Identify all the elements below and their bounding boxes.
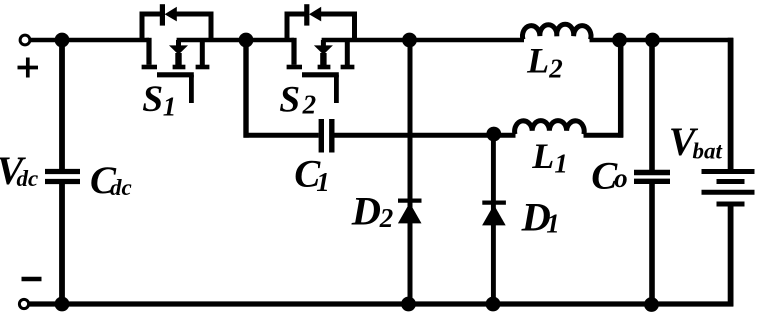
svg-text:L: L bbox=[531, 136, 554, 176]
wire top rail segment D bbox=[590, 38, 734, 42]
node dot Co top bbox=[645, 33, 660, 48]
S2 gate lead bbox=[334, 75, 339, 103]
svg-text:1: 1 bbox=[163, 92, 177, 122]
svg-text:S: S bbox=[142, 79, 163, 120]
S2 contact feet bbox=[287, 65, 355, 70]
node dot bottom-left bbox=[55, 297, 70, 312]
wire C1 to L1 bbox=[334, 133, 515, 138]
wire top rail segment A bbox=[31, 38, 149, 42]
wire battery branch lower bbox=[728, 204, 734, 306]
S2 body diode loop right leg bbox=[321, 14, 355, 40]
wire top rail segment B bbox=[177, 38, 294, 42]
wire S2 drain stub bbox=[291, 38, 296, 65]
wire Co branch upper bbox=[649, 38, 655, 170]
svg-text:2: 2 bbox=[302, 90, 317, 120]
svg-text:dc: dc bbox=[17, 166, 39, 191]
svg-text:bat: bat bbox=[693, 139, 723, 164]
svg-text:D: D bbox=[351, 188, 381, 233]
minus sign bbox=[22, 277, 42, 282]
S2 body arrow bbox=[314, 45, 333, 54]
wire left input rail lower bbox=[59, 184, 65, 306]
wire bottom rail bbox=[30, 301, 734, 306]
capacitor Co bbox=[634, 173, 670, 182]
S2 body diode loop left leg bbox=[287, 14, 305, 40]
inductor L2 bbox=[523, 24, 591, 39]
capacitor Cdc bbox=[45, 172, 80, 182]
inductor L1 bbox=[515, 121, 585, 135]
transistor S1 bbox=[142, 4, 211, 103]
node dot L2 right bbox=[612, 33, 627, 48]
node dot S1-S2 bbox=[239, 33, 254, 48]
S1 body arrow bbox=[169, 45, 188, 54]
S1 body diode loop left leg bbox=[142, 14, 160, 40]
S1 gate bar bbox=[157, 72, 194, 77]
S1 body diode triangle bbox=[165, 7, 177, 22]
wire D2 branch bbox=[408, 38, 413, 306]
node dot D1 bottom bbox=[486, 297, 501, 312]
node dot Co bottom bbox=[644, 297, 659, 312]
S2 gate bar bbox=[302, 72, 339, 77]
svg-text:S: S bbox=[279, 80, 300, 121]
diode D2 bbox=[398, 201, 422, 224]
S2 body diode triangle bbox=[309, 7, 321, 22]
S1 contact feet bbox=[142, 65, 210, 70]
S1 channel stubs bbox=[179, 40, 203, 65]
svg-text:L: L bbox=[526, 41, 549, 81]
wire S1 drain stub bbox=[146, 38, 151, 65]
svg-text:dc: dc bbox=[110, 175, 132, 200]
svg-text:o: o bbox=[614, 163, 628, 193]
wire node A to C1 horizontal bbox=[244, 133, 319, 138]
plus sign bbox=[18, 58, 39, 78]
S1 body diode loop right leg bbox=[176, 14, 211, 40]
node dot top-left bbox=[55, 33, 70, 48]
svg-text:2: 2 bbox=[379, 203, 394, 233]
S2 channel stubs bbox=[323, 40, 347, 65]
svg-text:1: 1 bbox=[316, 167, 330, 197]
svg-text:2: 2 bbox=[548, 54, 563, 84]
input terminal top bbox=[20, 35, 30, 45]
S1 gate lead bbox=[189, 75, 194, 103]
wire node A to C1 vertical bbox=[243, 38, 248, 138]
node dot D2 bottom bbox=[401, 297, 416, 312]
battery Vbat bbox=[702, 172, 755, 205]
svg-text:1: 1 bbox=[546, 208, 560, 238]
wire D1 branch bbox=[491, 133, 496, 306]
diode D1 bbox=[482, 203, 506, 226]
wire top rail segment C bbox=[322, 38, 524, 42]
wire L1 riser up to top rail bbox=[618, 38, 624, 138]
S2 body diode cathode bar bbox=[304, 4, 309, 25]
wire left input rail upper bbox=[59, 38, 65, 170]
input terminal bottom bbox=[19, 299, 28, 308]
svg-text:1: 1 bbox=[554, 149, 568, 179]
transistor S2 bbox=[287, 4, 355, 103]
node dot L1 left bbox=[486, 127, 501, 142]
wire Co branch lower bbox=[649, 184, 655, 307]
node dot D2 top bbox=[402, 33, 417, 48]
capacitor C1 bbox=[321, 119, 332, 153]
wire battery branch upper bbox=[728, 38, 734, 170]
wire L1 right to riser bbox=[584, 133, 624, 138]
S1 body diode cathode bar bbox=[160, 4, 165, 25]
